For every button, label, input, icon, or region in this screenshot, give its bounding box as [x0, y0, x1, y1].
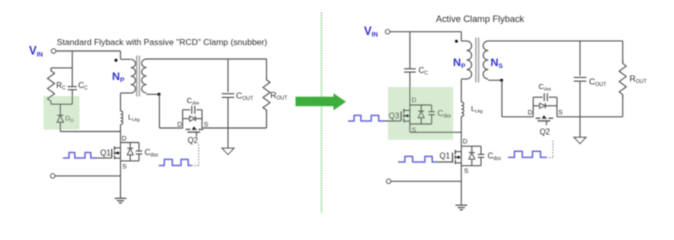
svg-text:Q1: Q1	[100, 149, 110, 158]
svg-text:D: D	[528, 110, 533, 117]
svg-text:Active Clamp Flyback: Active Clamp Flyback	[436, 14, 525, 24]
svg-text:Q1: Q1	[440, 152, 450, 161]
svg-text:Q2: Q2	[188, 136, 198, 145]
svg-text:Q3: Q3	[389, 111, 399, 120]
svg-text:D: D	[122, 136, 127, 143]
svg-text:Q2: Q2	[540, 128, 550, 137]
svg-text:D: D	[412, 97, 417, 104]
svg-text:S: S	[464, 168, 469, 175]
svg-text:D: D	[177, 122, 182, 129]
svg-text:Standard Flyback with Passive: Standard Flyback with Passive "RCD" Clam…	[57, 37, 268, 47]
svg-text:D: D	[463, 138, 468, 145]
svg-text:S: S	[122, 163, 127, 170]
svg-text:S: S	[558, 110, 563, 117]
